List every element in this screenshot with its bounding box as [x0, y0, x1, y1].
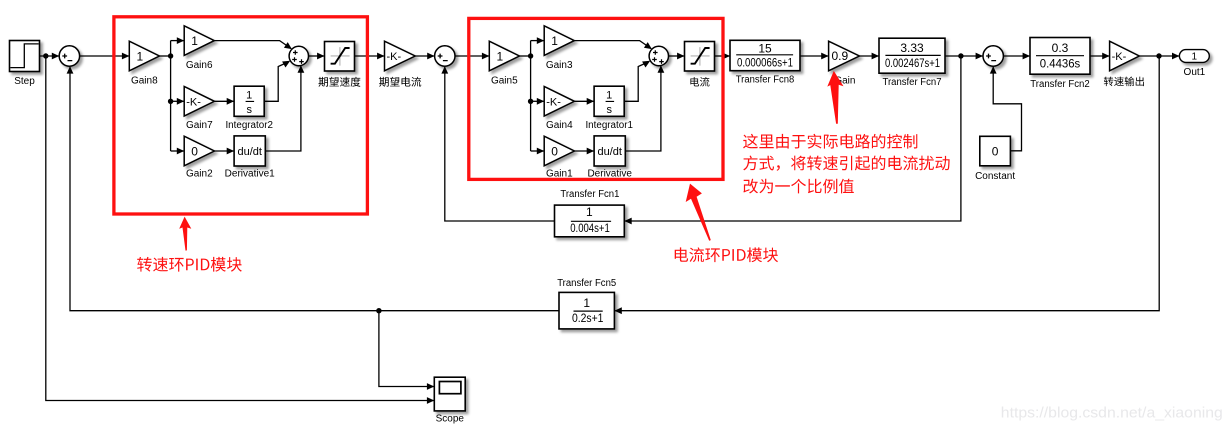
- svg-text:1: 1: [1192, 52, 1198, 63]
- svg-text:Scope: Scope: [436, 414, 465, 425]
- svg-text:1: 1: [586, 205, 593, 219]
- svg-text:-K-: -K-: [186, 96, 201, 108]
- svg-text:Gain8: Gain8: [131, 76, 158, 87]
- svg-text:1: 1: [551, 34, 558, 48]
- svg-text:https://blog.csdn.net/a_xiaoni: https://blog.csdn.net/a_xiaoning: [1001, 404, 1223, 421]
- svg-text:-K-: -K-: [546, 96, 561, 108]
- svg-text:0.2s+1: 0.2s+1: [572, 311, 604, 325]
- svg-text:0.002467s+1: 0.002467s+1: [885, 56, 940, 70]
- svg-text:1: 1: [583, 296, 590, 310]
- svg-text:Gain4: Gain4: [546, 120, 573, 131]
- svg-text:-K-: -K-: [386, 51, 401, 63]
- svg-text:Transfer Fcn2: Transfer Fcn2: [1030, 79, 1090, 90]
- svg-text:Transfer Fcn5: Transfer Fcn5: [557, 278, 616, 289]
- svg-text:3.33: 3.33: [900, 41, 924, 55]
- svg-text:Gain7: Gain7: [186, 120, 213, 131]
- svg-text:Gain6: Gain6: [186, 60, 213, 71]
- svg-text:0.4436s: 0.4436s: [1040, 57, 1081, 71]
- svg-text:Transfer Fcn7: Transfer Fcn7: [883, 77, 942, 88]
- svg-text:0.000066s+1: 0.000066s+1: [737, 56, 793, 70]
- svg-text:Integrator2: Integrator2: [225, 120, 273, 131]
- svg-text:Step: Step: [14, 76, 35, 87]
- svg-text:Transfer Fcn1: Transfer Fcn1: [560, 189, 619, 200]
- svg-text:1: 1: [136, 49, 143, 63]
- svg-text:0: 0: [191, 144, 198, 158]
- svg-text:0.3: 0.3: [1052, 41, 1069, 55]
- svg-text:0: 0: [551, 144, 558, 158]
- svg-text:Gain5: Gain5: [491, 76, 518, 87]
- svg-text:s: s: [606, 104, 612, 116]
- svg-text:15: 15: [758, 42, 772, 56]
- svg-text:Constant: Constant: [975, 171, 1015, 182]
- svg-text:Integrator1: Integrator1: [585, 120, 633, 131]
- svg-text:Transfer Fcn8: Transfer Fcn8: [736, 75, 795, 86]
- svg-text:du/dt: du/dt: [237, 146, 261, 158]
- svg-text:0: 0: [992, 144, 999, 158]
- svg-text:1: 1: [496, 49, 503, 63]
- svg-text:s: s: [246, 104, 252, 116]
- svg-text:0.004s+1: 0.004s+1: [570, 221, 610, 235]
- svg-text:1: 1: [191, 34, 198, 48]
- svg-text:du/dt: du/dt: [597, 146, 621, 158]
- svg-text:1: 1: [606, 90, 612, 102]
- svg-text:-K-: -K-: [1112, 51, 1127, 63]
- svg-text:1: 1: [246, 90, 252, 102]
- svg-text:0.9: 0.9: [831, 49, 848, 63]
- svg-text:Derivative1: Derivative1: [225, 168, 275, 179]
- svg-text:Out1: Out1: [1184, 67, 1206, 78]
- svg-text:Gain2: Gain2: [186, 168, 213, 179]
- svg-text:Gain3: Gain3: [546, 60, 573, 71]
